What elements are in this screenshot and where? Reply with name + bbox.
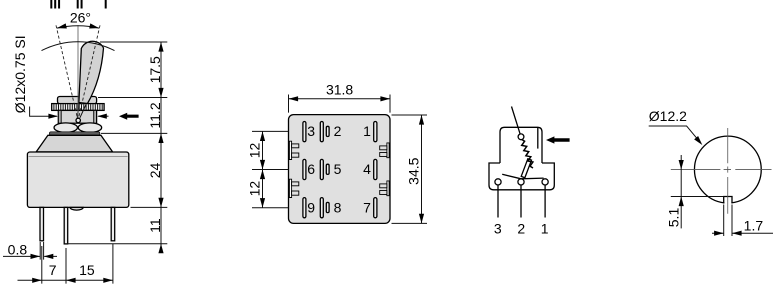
dim 1.7	[724, 205, 732, 237]
svg-text:3: 3	[494, 221, 502, 237]
svg-text:I: I	[104, 0, 108, 12]
svg-text:31.8: 31.8	[326, 81, 353, 97]
pivot	[76, 118, 80, 122]
svg-text:1.7: 1.7	[744, 217, 764, 233]
svg-text:Ø12.2: Ø12.2	[649, 108, 687, 124]
svg-text:34.5: 34.5	[406, 157, 422, 184]
lock washer	[49, 132, 100, 136]
bottom dimension line 7 / 15	[18, 279, 113, 281]
right dimension chain line	[160, 42, 162, 252]
extension line body bottom	[131, 206, 168, 208]
bushing cap	[58, 97, 97, 104]
svg-text:8: 8	[334, 199, 342, 215]
switch body	[27, 152, 128, 207]
lever line	[512, 107, 522, 137]
svg-text:6: 6	[307, 161, 315, 177]
pin middle	[64, 207, 68, 244]
dashed line position III	[56, 25, 78, 120]
terminal 2	[518, 179, 524, 185]
vertical centerline	[727, 128, 729, 214]
svg-text:11.2: 11.2	[147, 102, 163, 128]
extension line pin bottom	[67, 243, 167, 245]
svg-text:III: III	[49, 0, 61, 12]
actuation direction arrow	[119, 113, 139, 120]
terminal 3	[495, 179, 501, 185]
panel hole circle	[694, 136, 761, 203]
svg-text:Ø12x0.75 SI: Ø12x0.75 SI	[12, 35, 28, 113]
svg-text:9: 9	[307, 199, 315, 215]
dim 12 / 12	[252, 131, 289, 207]
extension line washer bottom	[101, 132, 167, 134]
dashed line position I	[78, 25, 100, 120]
svg-text:4: 4	[363, 161, 371, 177]
svg-text:7: 7	[363, 199, 371, 215]
svg-text:11: 11	[147, 218, 163, 233]
pivot circle	[518, 134, 524, 140]
pin right	[111, 207, 115, 240]
lever (toggle)	[79, 41, 104, 103]
body outline	[489, 163, 554, 190]
keyway	[724, 197, 732, 204]
hex nut	[54, 123, 77, 132]
right diameter arrow	[98, 115, 108, 117]
svg-text:24: 24	[147, 163, 163, 179]
svg-text:26°: 26°	[70, 10, 91, 26]
centerline position II	[77, 25, 79, 120]
extension line lever top	[100, 41, 167, 43]
base taper	[36, 135, 112, 152]
terminal slots row 1	[303, 122, 306, 142]
svg-text:17.5: 17.5	[147, 56, 163, 83]
base outline	[289, 115, 391, 224]
svg-text:1: 1	[541, 221, 549, 237]
lever shank lines to pivot	[77, 104, 86, 118]
right notch lower	[387, 181, 389, 196]
thread leader	[30, 107, 57, 117]
lever sweep arc	[42, 42, 115, 51]
svg-text:II: II	[76, 0, 84, 12]
svg-text:1: 1	[363, 123, 371, 139]
spring	[522, 139, 533, 168]
svg-text:5.1: 5.1	[666, 208, 682, 228]
left notch upper	[289, 141, 291, 159]
svg-text:12: 12	[247, 181, 263, 197]
26 degree dimension arc	[57, 26, 99, 28]
knurled nut	[52, 104, 104, 111]
bushing cylinder	[58, 110, 96, 123]
horizontal centerline	[671, 169, 772, 171]
plunger	[521, 159, 531, 178]
terminal slots row 2	[303, 159, 306, 179]
pin left	[40, 207, 44, 240]
svg-text:15: 15	[79, 262, 95, 278]
locating boss	[70, 207, 83, 210]
svg-text:12: 12	[247, 143, 263, 159]
actuation arrow	[546, 136, 570, 143]
extension line bushing top	[98, 97, 167, 99]
terminal 1	[542, 179, 548, 185]
contact rocker	[502, 174, 543, 179]
svg-text:2: 2	[517, 221, 525, 237]
svg-text:0.8: 0.8	[8, 242, 28, 258]
dim 5.1	[680, 155, 682, 228]
svg-text:7: 7	[49, 262, 57, 278]
left notch lower	[289, 179, 291, 197]
svg-text:3: 3	[307, 123, 315, 139]
svg-text:2: 2	[334, 123, 342, 139]
svg-text:5: 5	[334, 161, 342, 177]
right notch upper	[387, 143, 389, 158]
bushing outline	[500, 127, 542, 163]
terminal slots row 3	[303, 198, 306, 218]
terminal pins	[498, 185, 545, 218]
